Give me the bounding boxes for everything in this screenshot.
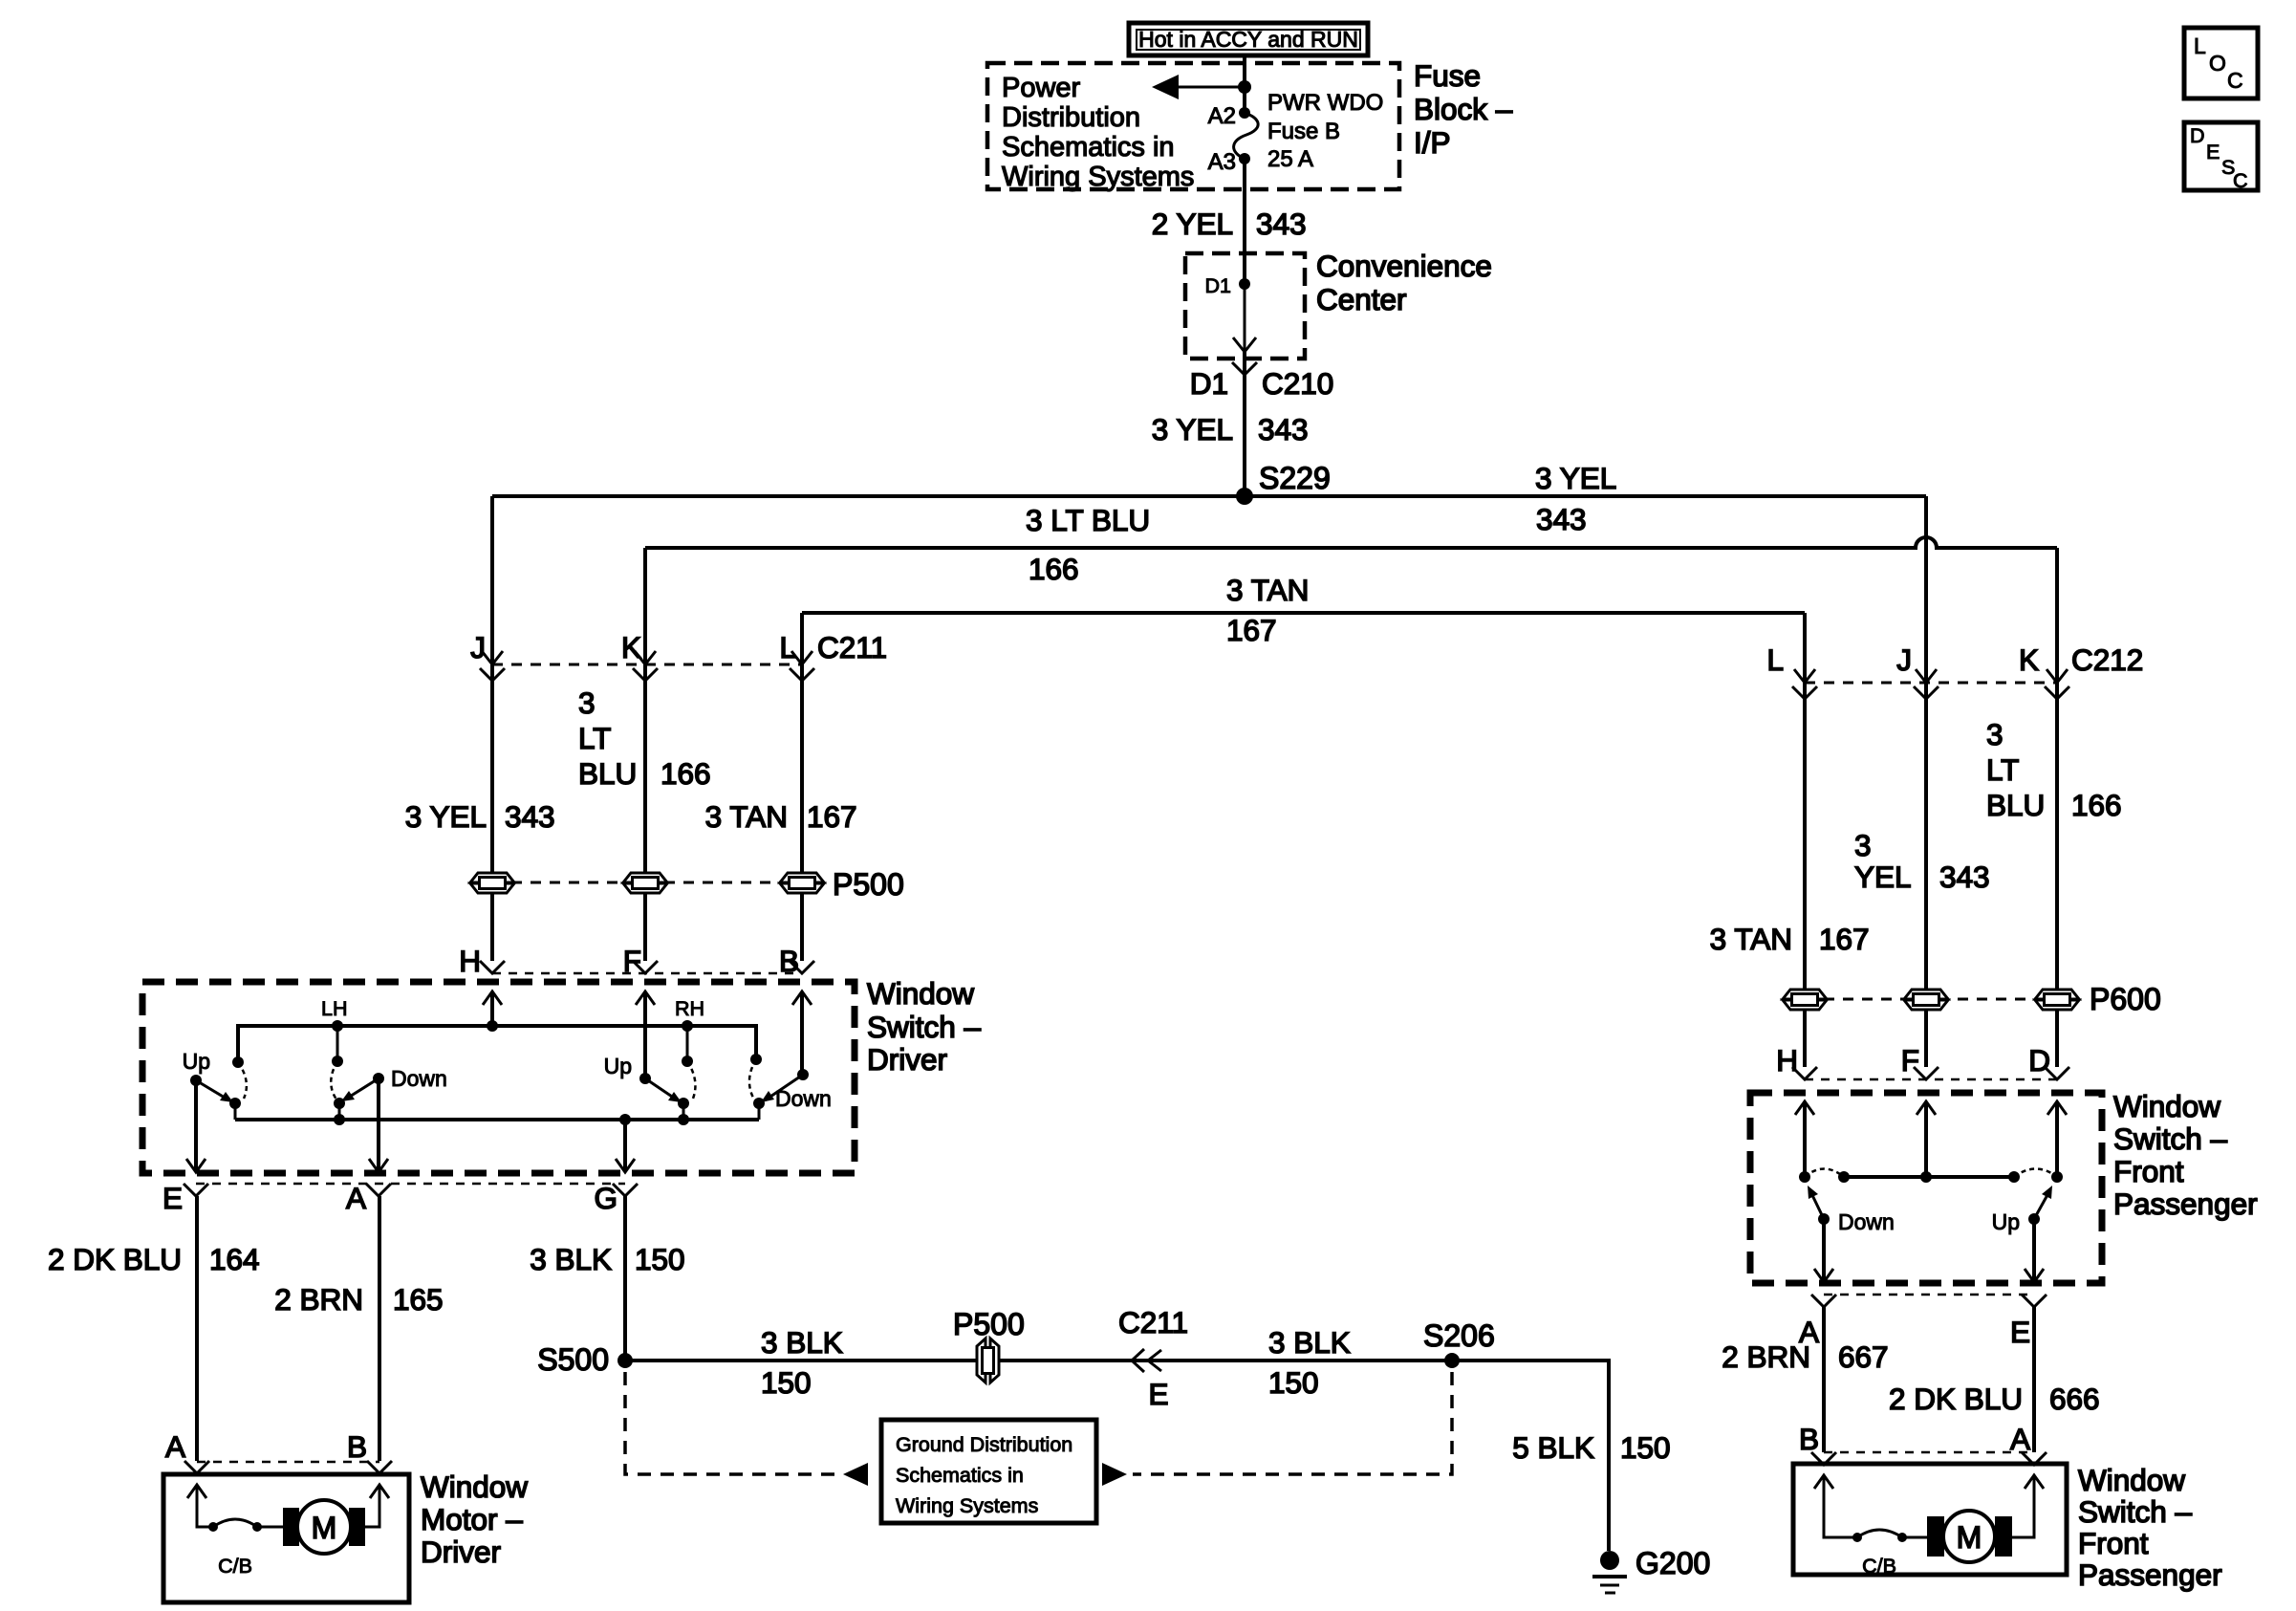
svg-text:D: D <box>2028 1043 2050 1078</box>
arrow: feed through convenience center <box>1233 284 1256 352</box>
arrow up into switch at B <box>792 991 812 1005</box>
svg-text:150: 150 <box>761 1365 812 1400</box>
svg-text:166: 166 <box>1029 552 1079 586</box>
grommet P500 on J wire <box>470 873 514 893</box>
svg-text:Power: Power <box>1002 73 1081 103</box>
switch detent arc LH right <box>331 1061 337 1099</box>
svg-text:3 TAN: 3 TAN <box>705 799 788 834</box>
svg-text:J: J <box>470 630 486 664</box>
wire: J drop right (3 YEL) <box>1924 496 1928 1067</box>
svg-text:C/B: C/B <box>218 1555 252 1578</box>
junction dot H on top bus <box>487 1020 498 1032</box>
wire label 2 DK BLU 164 <box>48 1242 260 1276</box>
svg-text:LH: LH <box>321 997 347 1020</box>
wire label 3 TAN 167 (center) <box>1226 573 1309 647</box>
wire: ground run S500 to G200 <box>625 1361 1609 1551</box>
svg-text:Block –: Block – <box>1414 92 1513 126</box>
grommet P500 dashed link <box>492 882 802 884</box>
svg-text:343: 343 <box>1536 502 1587 536</box>
circuit breaker C/B (passenger) <box>1852 1530 1907 1578</box>
svg-text:Up: Up <box>183 1049 210 1074</box>
connector C211 pin J <box>470 630 505 681</box>
svg-text:G200: G200 <box>1635 1546 1710 1580</box>
junction node at fuse feed <box>1238 80 1251 94</box>
DESC reference box <box>2184 122 2258 192</box>
bus end dot left <box>1838 1171 1850 1183</box>
svg-text:3 YEL: 3 YEL <box>1535 461 1616 495</box>
svg-text:Fuse: Fuse <box>1414 58 1481 93</box>
svg-text:164: 164 <box>209 1242 260 1276</box>
svg-text:E: E <box>2206 141 2220 163</box>
wire: H stem inside switch <box>490 991 494 1026</box>
convenience center dashed box <box>1185 253 1305 359</box>
svg-text:Fuse B: Fuse B <box>1267 119 1340 144</box>
arrow up into switch at F <box>1917 1101 1936 1115</box>
svg-text:165: 165 <box>393 1282 444 1317</box>
pivot dot H <box>1799 1171 1810 1183</box>
svg-text:3: 3 <box>1986 717 2004 751</box>
svg-text:2 BRN: 2 BRN <box>274 1282 363 1317</box>
label D1 / C210 <box>1190 366 1334 401</box>
svg-text:S206: S206 <box>1423 1318 1495 1353</box>
wire: E lead to FP motor <box>2032 1307 2036 1452</box>
wire: A output down from LH Down <box>377 1078 380 1172</box>
svg-text:3 LT BLU: 3 LT BLU <box>1026 503 1150 537</box>
label: Hot in ACCY and RUN <box>1129 23 1368 55</box>
wire: G lead to S500 <box>623 1196 627 1361</box>
contact dot right end of bus <box>750 1054 762 1065</box>
svg-text:K: K <box>2019 642 2039 677</box>
wire: D stem inside FP switch <box>2055 1101 2059 1177</box>
svg-text:Wiring Systems: Wiring Systems <box>1002 162 1194 192</box>
svg-text:Front: Front <box>2078 1526 2149 1560</box>
svg-text:Center: Center <box>1316 282 1407 316</box>
svg-text:B: B <box>1799 1422 1819 1456</box>
pin A3 <box>1208 149 1250 175</box>
driver switch top bus <box>238 1026 756 1062</box>
svg-text:Switch –: Switch – <box>867 1010 982 1044</box>
wire: A output down from FP Down <box>1822 1219 1826 1283</box>
svg-text:S229: S229 <box>1259 461 1331 495</box>
dashed reference from S500 to ground distribution box <box>625 1372 837 1474</box>
RH Down throw <box>775 1069 832 1111</box>
svg-text:PWR WDO: PWR WDO <box>1267 90 1383 116</box>
passenger switch pin row H F D <box>1776 1043 2050 1078</box>
svg-text:166: 166 <box>661 756 711 791</box>
pin row E A G below driver switch <box>184 1184 638 1196</box>
wire: F stem inside FP switch <box>1924 1101 1928 1177</box>
dashed reference from S206 to ground distribution box <box>1133 1372 1452 1474</box>
RH Down wiper arrow <box>761 1075 803 1102</box>
svg-text:150: 150 <box>1620 1430 1671 1465</box>
wire: A lead to motor <box>378 1196 381 1461</box>
connector C211 on ground wire <box>1118 1305 1188 1411</box>
junction dot on bottom bus (RH) <box>678 1114 689 1125</box>
detent arc right <box>2014 1169 2057 1178</box>
pivot dot D <box>2051 1171 2063 1183</box>
svg-text:C212: C212 <box>2071 642 2143 677</box>
svg-text:Wiring Systems: Wiring Systems <box>896 1494 1038 1517</box>
connector row at driver motor <box>184 1461 392 1473</box>
svg-text:3 TAN: 3 TAN <box>1226 573 1309 607</box>
arrow down at box bottom (E) <box>2025 1269 2044 1282</box>
wire label 2 BRN 667 <box>1722 1339 1888 1374</box>
pin A2 <box>1208 103 1250 129</box>
svg-text:Window: Window <box>2078 1463 2185 1497</box>
svg-text:343: 343 <box>505 799 555 834</box>
LH Up wiper arrow <box>196 1080 233 1102</box>
arrow down at box bottom (E) <box>186 1159 206 1172</box>
RH Up throw <box>604 1054 651 1084</box>
arrow down at box bottom (G) <box>616 1159 635 1172</box>
svg-text:A3: A3 <box>1208 149 1236 175</box>
svg-text:Driver: Driver <box>867 1042 947 1077</box>
window motor front passenger box <box>1793 1464 2067 1575</box>
svg-text:G: G <box>594 1181 617 1215</box>
junction dot F on bus <box>1920 1171 1932 1183</box>
wire label 3 LT BLU 166 (K drop right) <box>1986 717 2122 822</box>
svg-text:BLU: BLU <box>578 756 637 791</box>
wire: K drop right (3 LT BLU) <box>2055 548 2059 1067</box>
grommet P600 on L wire <box>1783 990 1827 1010</box>
pin row chevrons + dashed line at motor <box>1811 1452 2047 1465</box>
svg-text:Down: Down <box>391 1066 447 1091</box>
svg-text:C: C <box>2227 68 2243 93</box>
svg-text:3 BLK: 3 BLK <box>530 1242 612 1276</box>
svg-text:C211: C211 <box>817 630 887 664</box>
svg-text:667: 667 <box>1838 1339 1889 1374</box>
LOC reference box <box>2184 28 2258 98</box>
svg-text:3 BLK: 3 BLK <box>761 1325 843 1360</box>
circuit breaker C/B (driver) <box>208 1519 262 1578</box>
connector C212 row (dashed) <box>1805 682 2057 685</box>
svg-text:2 BRN: 2 BRN <box>1722 1339 1810 1374</box>
wire label 3 YEL 343 (right of S229) <box>1535 461 1616 536</box>
svg-text:M: M <box>1957 1520 1982 1555</box>
svg-text:B: B <box>347 1429 367 1464</box>
splice S206 <box>1423 1318 1495 1368</box>
driver switch pin row H F B <box>459 944 799 978</box>
ground G200 <box>1592 1546 1710 1593</box>
svg-text:LT: LT <box>1986 752 2019 787</box>
svg-text:343: 343 <box>1258 412 1309 446</box>
wire: 2 YEL 343 feed down to convenience center <box>1243 159 1246 284</box>
switch detent arc RH right <box>749 1059 756 1099</box>
wire label 3 TAN 167 (L drop right) <box>1710 922 1870 956</box>
pin row chevrons + dashed line <box>1792 1067 2069 1079</box>
ground distribution schematics box <box>881 1420 1096 1523</box>
svg-text:Passenger: Passenger <box>2078 1557 2222 1592</box>
window switch front passenger dashed box <box>1750 1093 2102 1283</box>
svg-text:L: L <box>2194 33 2206 58</box>
wire: 3 YEL 343 to splice S229 <box>1243 352 1246 496</box>
svg-text:3 YEL: 3 YEL <box>1152 412 1233 446</box>
svg-text:Schematics in: Schematics in <box>896 1464 1024 1487</box>
wire: 3 LT BLU 166 bus with hop over J wire <box>645 537 2057 548</box>
passenger switch bus <box>1844 1175 2014 1179</box>
connector C210 chevron <box>1232 362 1257 375</box>
svg-text:Passenger: Passenger <box>2113 1186 2258 1221</box>
svg-text:H: H <box>459 944 481 978</box>
svg-text:167: 167 <box>807 799 857 834</box>
svg-text:K: K <box>621 630 641 664</box>
svg-text:S500: S500 <box>537 1342 609 1377</box>
svg-text:3 YEL: 3 YEL <box>405 799 487 834</box>
arrow: feed to power distribution schematics <box>1152 75 1245 99</box>
driver switch bottom bus <box>235 1118 759 1121</box>
arrow down at box bottom (A) <box>1814 1269 1833 1282</box>
svg-text:E: E <box>162 1181 183 1215</box>
wire: battery feed from hot bar to fuse A2 <box>1243 55 1246 113</box>
motor driver internal left lead <box>187 1485 213 1527</box>
wire label 3 LT BLU 166 (center) <box>1026 503 1150 586</box>
svg-text:343: 343 <box>1939 860 1990 894</box>
svg-text:H: H <box>1776 1043 1798 1078</box>
label: Window Switch - Front Passenger <box>2113 1089 2258 1221</box>
svg-text:I/P: I/P <box>1414 125 1451 160</box>
switch detent arc RH left <box>687 1061 695 1099</box>
svg-text:A: A <box>346 1181 366 1215</box>
wire: H stem inside FP switch <box>1803 1101 1807 1177</box>
pin row A B at driver motor <box>165 1429 367 1464</box>
motor FP internal left lead <box>1814 1475 1857 1537</box>
svg-text:Convenience: Convenience <box>1316 249 1492 283</box>
grommet P500 on L wire <box>780 873 824 893</box>
svg-text:M: M <box>312 1511 337 1545</box>
svg-text:E: E <box>1148 1377 1168 1411</box>
wire label 5 BLK 150 <box>1512 1430 1670 1465</box>
svg-text:E: E <box>2010 1315 2030 1349</box>
wire: 3 TAN 167 bus <box>802 611 1805 615</box>
LH Down wiper arrow <box>341 1078 379 1101</box>
wire label 3 LT BLU 166 (K drop) <box>578 686 711 791</box>
wire label 3 BLK 150 (right of C211) <box>1268 1325 1351 1400</box>
pin labels B A at motor <box>1799 1422 2030 1456</box>
pin D1 (convenience center) <box>1205 274 1250 297</box>
svg-text:3 TAN: 3 TAN <box>1710 922 1792 956</box>
wire label 3 YEL 343 (J drop right) <box>1854 828 1990 894</box>
svg-text:2 DK BLU: 2 DK BLU <box>1889 1382 2023 1416</box>
svg-text:L: L <box>779 630 796 664</box>
svg-text:A: A <box>2010 1422 2030 1456</box>
grommet P600 on J wire <box>1904 990 1948 1010</box>
svg-text:P500: P500 <box>833 867 904 902</box>
label: Window Switch - Driver <box>867 976 982 1077</box>
svg-text:Switch –: Switch – <box>2078 1494 2193 1529</box>
wire: A lead to FP motor <box>1822 1307 1826 1452</box>
svg-text:Window: Window <box>2113 1089 2220 1123</box>
window switch driver dashed box <box>142 982 855 1173</box>
svg-text:YEL: YEL <box>1854 860 1912 894</box>
LH Up throw <box>183 1049 210 1086</box>
junction dot on bottom bus (LH) <box>334 1114 345 1125</box>
wire: L drop right (3 TAN) <box>1803 613 1807 1067</box>
arrowhead out of ground distribution (right) <box>1102 1463 1127 1486</box>
arrow down at box bottom (A) <box>369 1159 388 1172</box>
svg-text:2 DK BLU: 2 DK BLU <box>48 1242 182 1276</box>
wire label 2 YEL 343 <box>1152 207 1307 241</box>
svg-text:Down: Down <box>775 1086 832 1111</box>
contact dot left end of bus <box>232 1056 244 1068</box>
svg-text:3: 3 <box>1854 828 1872 862</box>
label: Fuse Block - I/P <box>1414 58 1513 160</box>
wire label 3 YEL 343 (J drop) <box>405 799 555 834</box>
label: Convenience Center <box>1316 249 1492 316</box>
svg-text:Hot in ACCY and RUN: Hot in ACCY and RUN <box>1138 27 1358 52</box>
svg-text:Switch –: Switch – <box>2113 1121 2228 1156</box>
svg-text:666: 666 <box>2049 1382 2100 1416</box>
wire: F stem inside switch <box>643 991 647 1078</box>
svg-text:D: D <box>2190 124 2205 147</box>
node LH <box>321 997 347 1067</box>
wire: E lead to motor <box>195 1196 199 1461</box>
grommet P500 on ground wire <box>953 1307 1025 1382</box>
svg-text:Distribution: Distribution <box>1002 102 1140 133</box>
svg-text:O: O <box>2209 51 2226 76</box>
svg-text:D1: D1 <box>1190 366 1228 401</box>
window motor driver box <box>163 1474 409 1602</box>
arrow up into switch at F <box>636 991 655 1005</box>
svg-text:Down: Down <box>1838 1209 1895 1234</box>
connector C212 pin K <box>2019 642 2069 699</box>
label: Window Motor - Driver <box>421 1469 528 1569</box>
svg-text:RH: RH <box>675 997 704 1020</box>
wire: B stem inside switch <box>800 991 804 1075</box>
text: Power Distribution Schematics in Wiring Systems <box>1002 73 1194 192</box>
RH Up wiper arrow <box>645 1078 682 1102</box>
motor M (driver) <box>257 1485 389 1554</box>
motor M (passenger) <box>1902 1475 2044 1562</box>
svg-text:3: 3 <box>578 686 596 720</box>
connector C211 pin L <box>779 630 814 681</box>
svg-text:343: 343 <box>1256 207 1307 241</box>
svg-text:166: 166 <box>2071 788 2122 822</box>
svg-text:Up: Up <box>604 1054 632 1078</box>
wire label 3 TAN 167 (L drop) <box>705 799 857 834</box>
connector C212 pin J <box>1896 642 1939 699</box>
wiper contact dots and stubs <box>229 1098 765 1120</box>
wire: K drop (3 LT BLU) left <box>643 548 647 961</box>
arrow up into switch at D <box>2047 1101 2067 1115</box>
connector C211 row (dashed) <box>492 664 802 666</box>
grommet P600 dashed link <box>1805 998 2057 1001</box>
svg-text:Motor –: Motor – <box>421 1502 523 1536</box>
junction dot on bottom bus (G) <box>619 1114 631 1125</box>
wire: G ground output <box>623 1120 627 1172</box>
svg-text:167: 167 <box>1226 613 1277 647</box>
svg-text:BLU: BLU <box>1986 788 2045 822</box>
bus end dot right <box>2008 1171 2020 1183</box>
svg-text:Ground Distribution: Ground Distribution <box>896 1433 1072 1456</box>
svg-text:C211: C211 <box>1118 1305 1188 1339</box>
svg-text:J: J <box>1896 642 1912 677</box>
svg-text:F: F <box>1901 1043 1919 1078</box>
svg-text:2 YEL: 2 YEL <box>1152 207 1233 241</box>
grommet P500 on K wire <box>623 873 667 893</box>
wire: E output down from LH Up <box>194 1080 198 1172</box>
svg-text:P600: P600 <box>2090 982 2161 1016</box>
svg-text:25 A: 25 A <box>1267 146 1313 172</box>
svg-text:Front: Front <box>2113 1154 2184 1188</box>
svg-text:Schematics in: Schematics in <box>1002 132 1175 163</box>
FP Up throw <box>1992 1209 2040 1234</box>
wire label 2 BRN 165 <box>274 1282 443 1317</box>
svg-text:Driver: Driver <box>421 1535 501 1569</box>
svg-text:C: C <box>2233 169 2248 192</box>
LH Down throw <box>373 1066 447 1091</box>
arrow up into switch at H <box>483 991 502 1005</box>
fuse block I/P dashed box <box>987 63 1399 189</box>
svg-text:5 BLK: 5 BLK <box>1512 1430 1594 1465</box>
wire label 2 DK BLU 666 <box>1889 1382 2100 1416</box>
detent arc left <box>1805 1169 1844 1178</box>
svg-text:150: 150 <box>635 1242 685 1276</box>
svg-text:D1: D1 <box>1205 274 1231 297</box>
pin row A E below passenger switch <box>1811 1295 2047 1307</box>
pin row chevrons + dashed line <box>480 961 814 973</box>
wire: L drop (3 TAN) left <box>800 613 804 961</box>
wire label 3 BLK 150 (left of P500) <box>761 1325 843 1400</box>
wire: J drop (3 YEL) left <box>490 496 494 961</box>
arrowhead into ground distribution (left) <box>843 1463 868 1486</box>
connector C211 pin K <box>621 630 658 681</box>
svg-text:C/B: C/B <box>1862 1555 1896 1578</box>
splice S500 <box>537 1342 633 1377</box>
label: Window Switch - Front Passenger (motor) <box>2078 1463 2222 1592</box>
label: PWR WDO Fuse B 25 A <box>1267 90 1383 172</box>
splice S229 <box>1236 461 1331 505</box>
switch detent arc LH left <box>238 1062 247 1099</box>
svg-text:C210: C210 <box>1262 366 1333 401</box>
svg-text:LT: LT <box>578 721 611 755</box>
wire label 3 BLK 150 <box>530 1242 684 1276</box>
fuse B PWR WDO 25 A (element curve) <box>1234 113 1259 159</box>
node RH <box>675 997 704 1067</box>
FP Down throw <box>1818 1209 1895 1234</box>
FP Up wiper arrow <box>2034 1186 2052 1219</box>
svg-text:Up: Up <box>1992 1209 2020 1234</box>
svg-text:L: L <box>1766 642 1784 677</box>
svg-text:150: 150 <box>1268 1365 1319 1400</box>
svg-text:Window: Window <box>867 976 974 1011</box>
connector C212 pin L <box>1766 642 1817 699</box>
svg-text:P500: P500 <box>953 1307 1025 1341</box>
FP Down wiper arrow <box>1808 1186 1824 1219</box>
arrow up into switch at H <box>1795 1101 1814 1115</box>
wire: 3 YEL 343 bus (main horizontal) <box>492 494 1926 498</box>
wire: E output down from FP Up <box>2032 1219 2036 1283</box>
grommet P600 on K wire <box>2035 990 2079 1010</box>
wire label 3 YEL 343 <box>1152 412 1309 446</box>
svg-text:A2: A2 <box>1208 103 1236 129</box>
svg-text:167: 167 <box>1819 922 1870 956</box>
svg-text:A: A <box>165 1429 185 1464</box>
svg-text:Window: Window <box>421 1469 528 1504</box>
svg-text:3 BLK: 3 BLK <box>1268 1325 1351 1360</box>
